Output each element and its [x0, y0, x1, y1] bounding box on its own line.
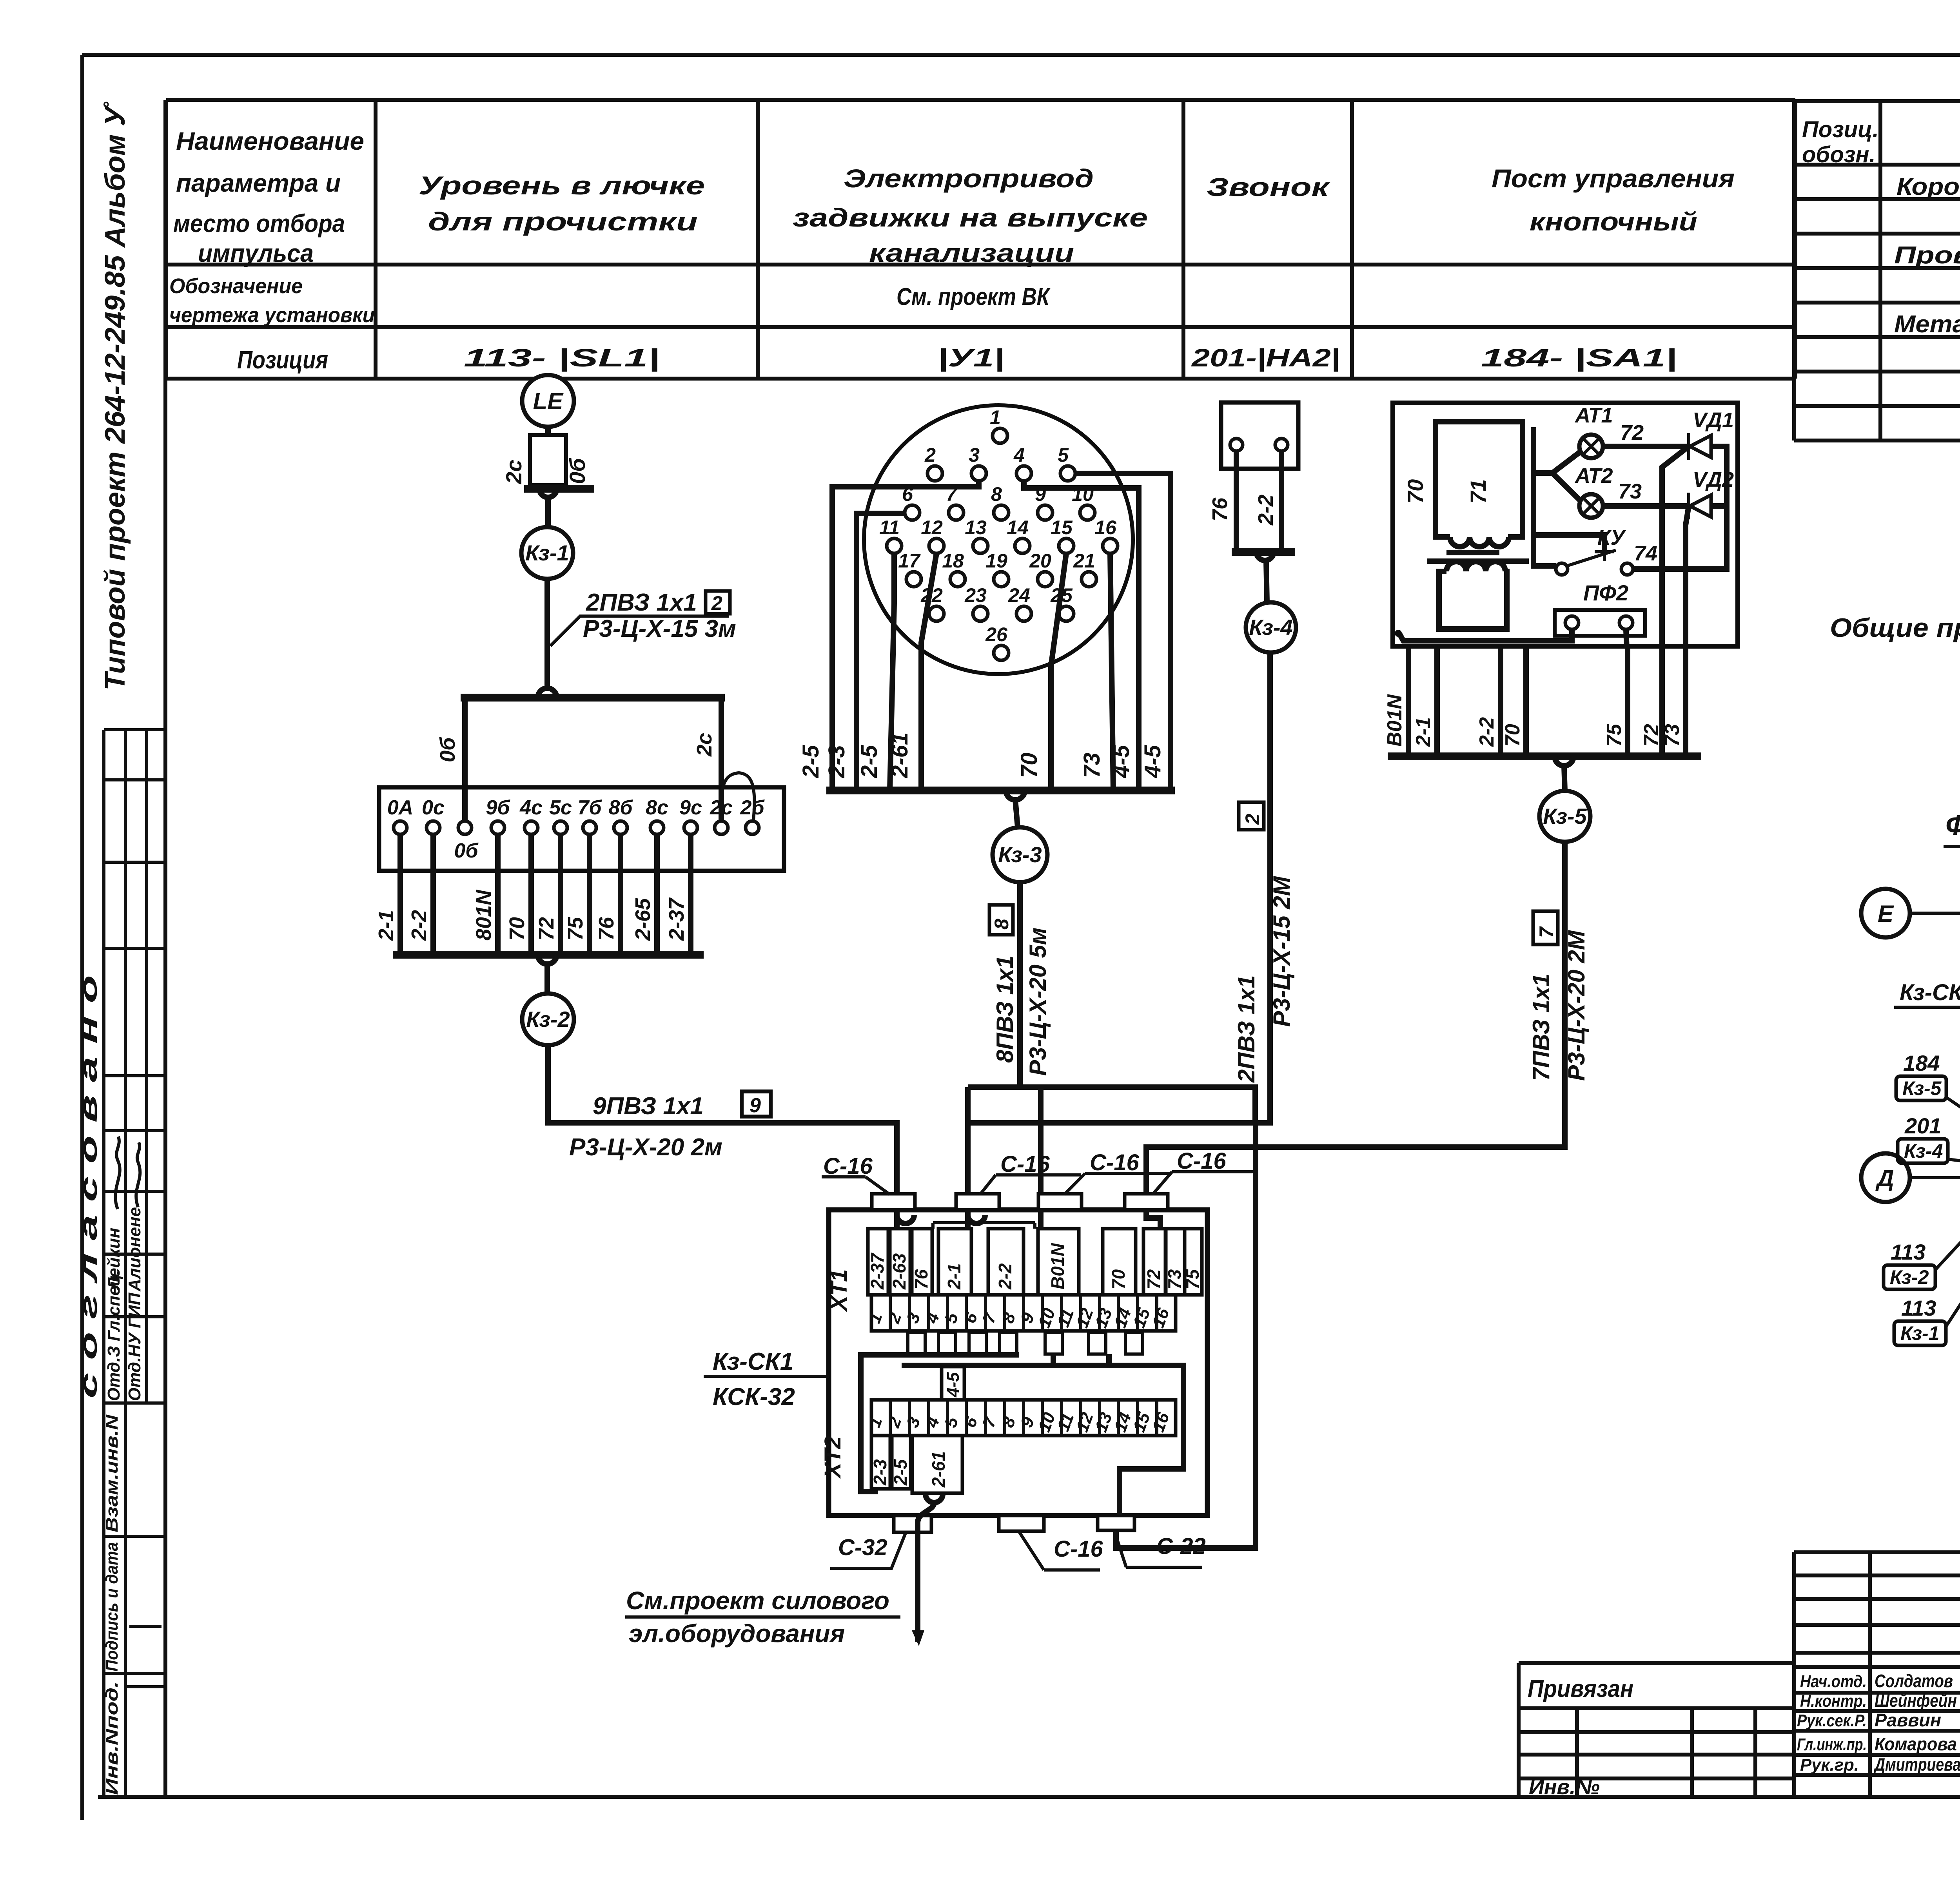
pin drop wires	[890, 553, 1113, 790]
svg-text:2: 2	[924, 444, 936, 466]
diode VD1	[1689, 408, 1734, 460]
svg-text:Кз-4: Кз-4	[1904, 1140, 1943, 1162]
svg-text:Инв.№: Инв.№	[1529, 1775, 1600, 1799]
wire Kz-2 to box	[548, 1045, 897, 1198]
sidebar outer line	[163, 100, 167, 1797]
svg-text:Металлорукав ТУ22-3988-77: Металлорукав ТУ22-3988-77	[1894, 311, 1960, 338]
svg-text:7: 7	[1535, 926, 1557, 938]
bell box	[1221, 402, 1298, 469]
svg-text:1: 1	[990, 406, 1001, 428]
axis E	[1861, 889, 1960, 937]
svg-text:24: 24	[1008, 584, 1030, 606]
terminal block PF2	[1555, 580, 1645, 636]
title block texts	[1797, 1574, 1960, 1799]
svg-text:2-1: 2-1	[1412, 717, 1435, 747]
svg-text:Инв.Nпод.: Инв.Nпод.	[102, 1681, 122, 1795]
wire	[544, 964, 550, 993]
svg-text:Фрагмент плана подвала: Фрагмент плана подвала	[1945, 810, 1960, 841]
svg-text:Кз-1: Кз-1	[525, 540, 569, 565]
svg-text:канализации: канализации	[869, 238, 1074, 267]
svg-text:Комарова: Комарова	[1875, 1734, 1957, 1754]
svg-text:75: 75	[1182, 1269, 1203, 1289]
post drop wires	[1383, 649, 1686, 756]
svg-text:5: 5	[1058, 444, 1069, 466]
trunk cable line to glands	[968, 1087, 1270, 1548]
wire	[1564, 766, 1565, 791]
svg-text:эл.оборудования: эл.оборудования	[629, 1619, 845, 1648]
svg-text:С-16: С-16	[1177, 1148, 1226, 1174]
svg-text:113: 113	[1901, 1296, 1936, 1320]
svg-text:Уровень в лючке: Уровень в лючке	[419, 171, 705, 200]
svg-text:Нач.отд.: Нач.отд.	[1800, 1672, 1867, 1691]
svg-text:76: 76	[1208, 497, 1232, 521]
label 113 Kz-1	[1894, 1215, 1960, 1345]
svg-text:2с: 2с	[501, 460, 526, 484]
svg-text:2-5: 2-5	[798, 745, 824, 778]
title block	[1794, 1552, 1960, 1797]
connector pins 1-26	[879, 406, 1118, 660]
svg-text:импульса: импульса	[198, 239, 314, 267]
svg-text:8: 8	[991, 919, 1013, 930]
svg-text:2-2: 2-2	[1254, 495, 1278, 526]
terminal drop wires	[374, 834, 691, 955]
plan title	[1944, 810, 1960, 888]
svg-text:Е: Е	[1878, 901, 1894, 927]
svg-text:7ПВЗ 1х1: 7ПВЗ 1х1	[1528, 973, 1554, 1081]
cable label 7PV3 1x1 [7]	[1528, 911, 1590, 1081]
post bus	[1388, 756, 1701, 766]
svg-text:с о г л а с о в а н о: с о г л а с о в а н о	[75, 975, 102, 1398]
svg-text:73: 73	[1164, 1269, 1185, 1289]
svg-text:В01N: В01N	[1047, 1243, 1068, 1289]
header table texts	[169, 127, 1735, 374]
svg-text:70: 70	[1403, 479, 1428, 504]
svg-text:2-3: 2-3	[870, 1459, 890, 1486]
svg-text:Р3-Ц-Х-15 3м: Р3-Ц-Х-15 3м	[583, 615, 736, 642]
svg-text:Отд.НУ ГИП: Отд.НУ ГИП	[125, 1292, 144, 1401]
cable label 9PV3 1x1 [9]	[569, 1091, 771, 1161]
svg-text:8с: 8с	[646, 796, 668, 819]
jumper 2c-2b	[721, 773, 754, 821]
parameter header table	[166, 100, 1795, 379]
svg-text:73: 73	[1618, 480, 1642, 503]
connector plug circle	[864, 405, 1133, 674]
svg-text:2-37: 2-37	[867, 1253, 887, 1290]
lamp AT1	[1574, 404, 1613, 458]
svg-text:113: 113	[1891, 1240, 1926, 1264]
cable label 8PV3 1x1 [8]	[989, 905, 1051, 1076]
svg-text:26: 26	[985, 624, 1008, 645]
svg-text:Кз-СК1: Кз-СК1	[1900, 980, 1960, 1005]
connector wiring box	[832, 473, 1171, 790]
axis D	[1861, 1153, 1960, 1202]
svg-text:С-16: С-16	[823, 1153, 873, 1179]
svg-text:201: 201	[1904, 1113, 1941, 1138]
svg-text:2-37: 2-37	[665, 897, 688, 941]
bottom glands C-32 C-16 C-22	[894, 1515, 1134, 1532]
svg-text:АТ1: АТ1	[1574, 404, 1613, 427]
svg-text:72: 72	[1640, 724, 1663, 747]
svg-text:113- |SL1|: 113- |SL1|	[464, 344, 660, 372]
svg-text:Электропривод: Электропривод	[844, 164, 1094, 193]
project designation vertical text	[100, 102, 131, 691]
svg-text:Кз-5: Кз-5	[1543, 804, 1587, 828]
svg-text:Типовой проект 264-12-249.85: Типовой проект 264-12-249.85 Альбом У̊	[100, 102, 131, 691]
svg-text:17: 17	[898, 550, 921, 572]
svg-text:В01N: В01N	[1383, 694, 1406, 747]
svg-text:4-5: 4-5	[1140, 745, 1165, 778]
wire Kz-5 to box	[1146, 842, 1565, 1198]
gland entry wires	[897, 1210, 1160, 1229]
terminal box of electric drive	[379, 787, 784, 871]
svg-text:параметра и: параметра и	[176, 169, 341, 197]
svg-text:С-22: С-22	[1156, 1534, 1206, 1559]
svg-text:70: 70	[1108, 1269, 1129, 1289]
distribution bus	[436, 688, 725, 821]
attach table	[1519, 1663, 1794, 1799]
svg-text:18: 18	[942, 550, 964, 572]
svg-text:Кз-5: Кз-5	[1902, 1077, 1942, 1099]
wire	[545, 497, 551, 527]
svg-text:Наименование: Наименование	[176, 127, 364, 155]
svg-text:Кз-2: Кз-2	[1890, 1266, 1929, 1288]
svg-text:Рук.гр.: Рук.гр.	[1800, 1755, 1859, 1775]
svg-text:12: 12	[921, 517, 943, 538]
svg-text:С-16: С-16	[1090, 1150, 1139, 1175]
svg-text:2: 2	[711, 592, 722, 614]
svg-text:70: 70	[1501, 724, 1524, 747]
svg-text:КСК-32: КСК-32	[713, 1383, 795, 1410]
svg-text:16: 16	[1094, 517, 1117, 538]
specification table	[1794, 101, 1960, 441]
instrument LE (level element)	[522, 375, 574, 427]
svg-text:Коробка соединительная КСК-32: Коробка соединительная КСК-32	[1896, 173, 1960, 200]
svg-text:Кз-4: Кз-4	[1249, 615, 1292, 640]
svg-text:Д: Д	[1875, 1165, 1894, 1191]
svg-text:0А: 0А	[387, 796, 413, 819]
svg-text:7б: 7б	[577, 796, 602, 819]
svg-text:2с: 2с	[693, 733, 716, 757]
sidebar vertical labels	[75, 975, 144, 1795]
svg-text:9б: 9б	[486, 796, 510, 819]
svg-text:задвижки на выпуске: задвижки на выпуске	[793, 203, 1148, 232]
svg-text:8: 8	[991, 483, 1002, 505]
svg-text:20: 20	[1029, 550, 1051, 572]
svg-text:2-63: 2-63	[889, 1253, 909, 1290]
svg-text:5с: 5с	[549, 796, 572, 819]
label Kz-SK1 / KSK-32	[704, 1348, 829, 1410]
svg-text:70: 70	[505, 917, 529, 941]
svg-text:2-2: 2-2	[1475, 717, 1498, 747]
junction Kz-3	[993, 827, 1047, 882]
svg-text:4-5: 4-5	[1109, 745, 1134, 778]
wire branch to gland 3	[1038, 1087, 1044, 1198]
svg-text:15: 15	[1051, 517, 1073, 538]
svg-text:Р3-Ц-Х-20 2м: Р3-Ц-Х-20 2м	[569, 1134, 722, 1161]
svg-text:0б: 0б	[454, 839, 479, 862]
wire	[544, 579, 550, 690]
svg-text:Провод ПВЗ 1х1: Провод ПВЗ 1х1	[1894, 242, 1960, 269]
svg-text:0б: 0б	[436, 737, 459, 762]
svg-text:Подпись и дата: Подпись и дата	[102, 1542, 122, 1671]
svg-text:8ПВЗ 1х1: 8ПВЗ 1х1	[992, 955, 1018, 1063]
svg-text:ХТ2: ХТ2	[820, 1436, 846, 1479]
svg-text:чертежа установки: чертежа установки	[169, 303, 375, 327]
svg-text:9ПВЗ 1х1: 9ПВЗ 1х1	[593, 1093, 704, 1120]
svg-text:72: 72	[535, 917, 558, 941]
svg-text:2-61: 2-61	[928, 1451, 949, 1488]
svg-text:Р3-Ц-Х-15 2М: Р3-Ц-Х-15 2М	[1269, 876, 1295, 1027]
label 201 Kz-4	[1898, 1113, 1960, 1166]
svg-text:ПФ2: ПФ2	[1583, 580, 1628, 605]
bell bus	[1232, 552, 1295, 560]
wire	[1015, 800, 1018, 827]
junction box KSK-32	[829, 1210, 1207, 1515]
svg-text:Позиция: Позиция	[237, 346, 328, 374]
svg-text:3: 3	[969, 444, 980, 466]
junction Kz-1	[521, 527, 573, 579]
svg-text:Пост управления: Пост управления	[1492, 164, 1735, 193]
tag 4-5	[942, 1367, 964, 1400]
svg-text:9с: 9с	[679, 796, 702, 819]
svg-text:Общие примечания см. л. А: Общие примечания см. л. АУ-10, АУ-15	[1830, 613, 1960, 643]
svg-text:ХТ1: ХТ1	[826, 1269, 852, 1312]
svg-text:4-5: 4-5	[944, 1372, 963, 1398]
svg-text:11: 11	[879, 517, 900, 538]
svg-text:Позиц.: Позиц.	[1802, 117, 1879, 142]
wire	[1266, 560, 1267, 602]
svg-text:4: 4	[1013, 444, 1025, 466]
cable sleeve with core labels 2c 0b	[501, 427, 594, 497]
svg-text:801N: 801N	[472, 890, 495, 941]
svg-text:2ПВЗ 1х1: 2ПВЗ 1х1	[1233, 975, 1259, 1083]
svg-text:70: 70	[1016, 752, 1042, 778]
svg-text:76: 76	[911, 1269, 931, 1289]
label 113 Kz-2	[1884, 1191, 1960, 1289]
svg-text:Привязан: Привязан	[1528, 1675, 1633, 1702]
svg-text:Взам.инв.N: Взам.инв.N	[102, 1414, 122, 1532]
svg-text:8б: 8б	[608, 796, 633, 819]
svg-text:Р3-Ц-Х-20 2М: Р3-Ц-Х-20 2М	[1563, 930, 1590, 1081]
svg-text:184- |SА1|: 184- |SА1|	[1481, 344, 1677, 372]
svg-text:С-32: С-32	[838, 1535, 887, 1560]
junction Kz-4	[1246, 602, 1296, 653]
collector bus	[393, 955, 704, 964]
svg-text:Обозначение: Обозначение	[169, 274, 303, 298]
svg-text:23: 23	[964, 584, 987, 606]
cable label 2PV3 1x1 [2]	[550, 589, 736, 646]
svg-text:С-16: С-16	[1054, 1536, 1103, 1562]
svg-text:2-61: 2-61	[887, 732, 913, 778]
XT1 lower stubs	[908, 1332, 1143, 1354]
svg-text:201-|НА2|: 201-|НА2|	[1191, 344, 1340, 372]
svg-text:71: 71	[1466, 479, 1490, 504]
svg-text:АТ2: АТ2	[1574, 464, 1613, 488]
see power project note	[625, 1586, 900, 1648]
svg-text:2-2: 2-2	[407, 910, 431, 941]
svg-text:|У1|: |У1|	[938, 344, 1004, 372]
label 184 Kz-5	[1896, 1051, 1960, 1138]
svg-text:184: 184	[1903, 1051, 1940, 1075]
bell wires 76 / 2-2	[1208, 451, 1281, 552]
svg-text:место отбора: место отбора	[173, 209, 345, 237]
svg-text:73: 73	[1079, 752, 1105, 778]
svg-text:0б: 0б	[565, 458, 590, 484]
svg-text:2-5: 2-5	[857, 745, 882, 778]
svg-text:2: 2	[1241, 814, 1263, 825]
label Kz-SK1	[1894, 980, 1960, 1131]
svg-text:Гл.инж.пр.: Гл.инж.пр.	[1797, 1735, 1867, 1754]
svg-text:2-5: 2-5	[890, 1459, 911, 1486]
svg-text:С-16: С-16	[1000, 1151, 1050, 1177]
svg-text:кнопочный: кнопочный	[1530, 207, 1697, 236]
svg-text:Солдатов: Солдатов	[1875, 1671, 1953, 1691]
svg-text:VД1: VД1	[1693, 408, 1734, 432]
diode VD2	[1689, 468, 1734, 519]
push-button control post box	[1393, 403, 1738, 646]
top glands C-16	[872, 1194, 1168, 1210]
svg-text:4с: 4с	[519, 796, 543, 819]
svg-text:Отд.З Гл.спец.: Отд.З Гл.спец.	[104, 1270, 123, 1401]
svg-text:72: 72	[1143, 1269, 1164, 1289]
tags below XT2	[870, 1436, 962, 1493]
svg-text:Алионене: Алионене	[125, 1207, 144, 1292]
svg-text:Кз-1: Кз-1	[1900, 1322, 1939, 1344]
connector wire labels	[798, 732, 1165, 778]
svg-text:75: 75	[1603, 723, 1626, 747]
junction Kz-2	[522, 993, 574, 1045]
svg-text:0с: 0с	[422, 796, 445, 819]
svg-text:13: 13	[965, 517, 987, 538]
cable label 2PV3 1x1 [2]	[1233, 802, 1295, 1083]
svg-text:LE: LE	[533, 388, 564, 414]
svg-text:Дмитриева: Дмитриева	[1873, 1754, 1960, 1775]
svg-text:76: 76	[595, 917, 618, 941]
svg-text:Кз-3: Кз-3	[998, 842, 1042, 867]
inner cable bundle	[861, 1354, 1183, 1515]
connector bus	[826, 790, 1175, 800]
wire tags above XT1	[867, 1229, 1203, 1295]
specification texts	[1802, 117, 1960, 407]
wire Kz-4 down	[1255, 653, 1270, 1123]
svg-text:для прочистки: для прочистки	[428, 207, 698, 236]
svg-text:Шейнфейн: Шейнфейн	[1875, 1690, 1957, 1711]
terminal strip XT2	[820, 1400, 1176, 1479]
svg-text:73: 73	[1661, 724, 1684, 747]
svg-text:См.проект силового: См.проект силового	[626, 1586, 889, 1615]
terminal strip XT1	[826, 1269, 1176, 1331]
gland labels C-16	[822, 1148, 1257, 1195]
svg-text:2-2: 2-2	[995, 1263, 1015, 1290]
svg-text:9: 9	[750, 1094, 761, 1117]
svg-text:Р3-Ц-Х-20 5м: Р3-Ц-Х-20 5м	[1025, 928, 1051, 1076]
svg-text:Раввин: Раввин	[1875, 1710, 1941, 1730]
svg-text:Кз-2: Кз-2	[526, 1007, 570, 1031]
svg-text:21: 21	[1073, 550, 1095, 572]
svg-text:72: 72	[1620, 421, 1644, 444]
svg-text:2-1: 2-1	[944, 1264, 964, 1290]
svg-text:Н.контр.: Н.контр.	[1800, 1691, 1867, 1711]
svg-text:Звонок: Звонок	[1207, 172, 1331, 201]
svg-text:Лейкин: Лейкин	[104, 1228, 123, 1291]
svg-text:75: 75	[564, 917, 587, 941]
power cable via C-32	[912, 1494, 943, 1646]
svg-text:См. проект ВК: См. проект ВК	[897, 283, 1051, 310]
svg-text:2-65: 2-65	[631, 898, 655, 941]
sidebar stamp column	[104, 730, 165, 1797]
svg-text:Кз-СК1: Кз-СК1	[713, 1348, 793, 1375]
lamp AT2	[1574, 464, 1613, 518]
button KU	[1556, 526, 1657, 575]
svg-text:2-1: 2-1	[374, 910, 398, 941]
svg-text:обозн.: обозн.	[1802, 142, 1876, 167]
post interior wires	[1395, 421, 1727, 649]
svg-text:2ПВЗ 1х1: 2ПВЗ 1х1	[586, 589, 697, 616]
terminals 0A..2b	[387, 796, 765, 862]
svg-text:Рук.сек.Р.: Рук.сек.Р.	[1797, 1711, 1867, 1730]
svg-text:14: 14	[1007, 517, 1029, 538]
transformer windings 70 71	[1403, 422, 1529, 629]
junction Kz-5	[1539, 791, 1590, 842]
svg-text:19: 19	[985, 550, 1007, 572]
bottom gland labels	[830, 1531, 1206, 1570]
svg-text:2-3: 2-3	[824, 745, 849, 778]
wire Kz-3 to box	[1020, 882, 1255, 1123]
svg-text:74: 74	[1634, 542, 1657, 565]
